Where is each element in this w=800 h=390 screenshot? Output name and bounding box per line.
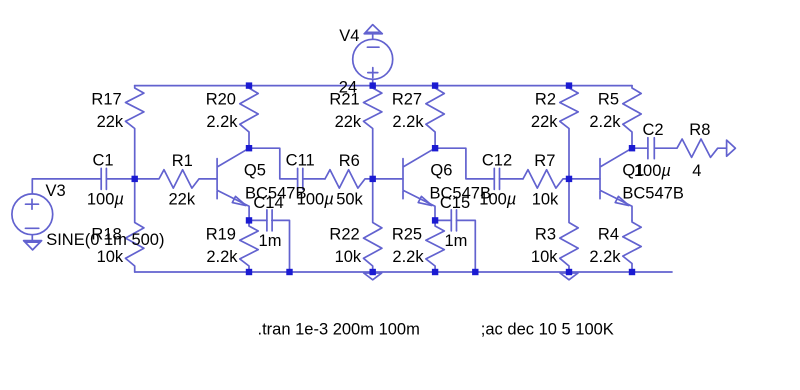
wire V4 to rail (372, 79, 374, 85)
svg-text:R1: R1 (172, 152, 193, 170)
resistor R3 10k (560, 179, 578, 272)
svg-text:24: 24 (339, 79, 357, 97)
svg-text:50k: 50k (336, 191, 363, 209)
wire top supply rail (135, 85, 632, 87)
svg-text:V3: V3 (46, 182, 66, 200)
resistor R20 2.2k (240, 86, 258, 149)
svg-text:R22: R22 (329, 225, 359, 243)
resistor R1 22k (135, 170, 217, 188)
svg-text:100µ: 100µ (87, 191, 124, 209)
svg-text:Q6: Q6 (430, 162, 452, 180)
capacitor C2 100u (648, 138, 654, 159)
svg-text:R27: R27 (392, 91, 422, 109)
wire emitter Q6 to C15 (435, 219, 451, 221)
transistor Q6 BC547B (403, 148, 435, 220)
svg-text:1m: 1m (259, 232, 282, 250)
resistor R17 22k (126, 86, 144, 179)
wire node C to Q1 base (569, 178, 600, 180)
wire Q5 collector to C11 (249, 148, 298, 179)
svg-text:R25: R25 (392, 225, 422, 243)
wire C12 to R7 (500, 178, 524, 180)
resistor R6 50k (325, 170, 373, 188)
resistor R18 10k (126, 179, 144, 272)
svg-text:.tran 1e-3 200m 100m: .tran 1e-3 200m 100m (258, 321, 420, 339)
capacitor C1 100u (101, 168, 106, 189)
resistor R21 22k (364, 86, 382, 179)
svg-text:R7: R7 (534, 152, 555, 170)
wire C15 branch down (457, 220, 476, 272)
svg-text:10k: 10k (531, 248, 558, 266)
ground on rail at R3 (560, 273, 578, 280)
svg-text:22k: 22k (169, 191, 196, 209)
svg-text:C2: C2 (642, 121, 663, 139)
capacitor C11 100u (298, 168, 303, 189)
wire C1 to node A (106, 178, 134, 180)
svg-text:Q1: Q1 (622, 162, 644, 180)
wire Q1 collector to C2 (632, 147, 648, 149)
resistor R25 2.2k (426, 220, 444, 272)
svg-text:C12: C12 (482, 151, 512, 169)
svg-text:1m: 1m (444, 232, 467, 250)
svg-text:22k: 22k (97, 113, 124, 131)
voltage source V3 (12, 194, 53, 235)
svg-text:22k: 22k (335, 113, 362, 131)
resistor R22 10k (364, 179, 382, 272)
svg-text:R19: R19 (206, 225, 236, 243)
svg-text:2.2k: 2.2k (206, 113, 238, 131)
svg-text:10k: 10k (97, 248, 124, 266)
svg-text:BC547B: BC547B (622, 184, 683, 202)
wire C11 to R6 (303, 178, 325, 180)
svg-text:;ac dec 10 5 100K: ;ac dec 10 5 100K (481, 321, 614, 339)
wire C14 branch down (272, 220, 290, 272)
wire Q6 collector to C12 (435, 148, 494, 179)
svg-text:R6: R6 (339, 152, 360, 170)
wire C2 to R8 (654, 147, 676, 149)
ground below V3 (24, 235, 42, 250)
svg-text:R5: R5 (598, 91, 619, 109)
svg-text:10k: 10k (335, 248, 362, 266)
output port arrow (727, 140, 736, 156)
svg-text:BC547B: BC547B (430, 184, 491, 202)
svg-text:2.2k: 2.2k (392, 113, 424, 131)
transistor Q5 BC547B (217, 148, 249, 220)
wire bottom ground rail (135, 271, 672, 273)
capacitor C12 100u (494, 168, 499, 189)
voltage source V4 (353, 39, 393, 79)
resistor R8 4 (677, 139, 727, 157)
svg-text:C11: C11 (286, 151, 315, 169)
svg-text:R8: R8 (689, 121, 710, 139)
svg-text:R20: R20 (206, 91, 236, 109)
svg-text:22k: 22k (531, 113, 558, 131)
capacitor C15 1m (451, 210, 456, 231)
svg-text:R17: R17 (91, 91, 121, 109)
svg-text:2.2k: 2.2k (392, 248, 424, 266)
wire node B to Q6 base (373, 178, 403, 180)
wire emitter Q5 to C14 (249, 219, 267, 221)
svg-text:Q5: Q5 (244, 162, 266, 180)
svg-text:2.2k: 2.2k (589, 248, 621, 266)
power flag above V4 (364, 25, 382, 40)
transistor Q1 BC547B (600, 148, 632, 220)
svg-text:SINE(0 1m 500): SINE(0 1m 500) (46, 231, 164, 249)
svg-text:C1: C1 (92, 151, 113, 169)
svg-text:4: 4 (692, 162, 701, 180)
wire V3 to C1 (32, 179, 101, 194)
svg-text:R2: R2 (535, 91, 556, 109)
svg-text:R3: R3 (535, 225, 556, 243)
resistor R7 10k (523, 170, 569, 188)
resistor R27 2.2k (426, 86, 444, 149)
svg-text:2.2k: 2.2k (589, 113, 621, 131)
svg-text:BC547B: BC547B (245, 184, 306, 202)
svg-text:V4: V4 (339, 27, 359, 45)
resistor R5 2.2k (623, 86, 641, 149)
capacitor C14 1m (267, 210, 272, 231)
resistor R4 2.2k (623, 220, 641, 272)
resistor R2 22k (560, 86, 578, 179)
svg-text:R4: R4 (598, 225, 619, 243)
ground on rail at R22 (364, 273, 382, 280)
svg-text:2.2k: 2.2k (206, 248, 238, 266)
resistor R19 2.2k (240, 220, 258, 272)
svg-text:10k: 10k (532, 191, 559, 209)
